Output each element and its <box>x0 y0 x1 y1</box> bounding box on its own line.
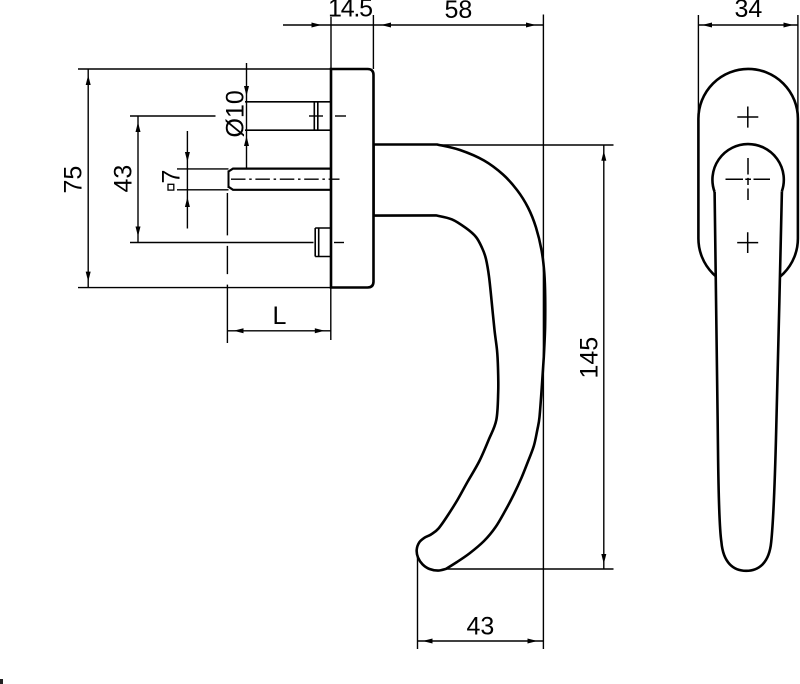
svg-text:7: 7 <box>158 170 186 184</box>
svg-text:43: 43 <box>110 165 138 193</box>
label square symbol <box>168 184 174 190</box>
extension line L right (plate face x=330.8 below plate) <box>330 288 332 340</box>
arrow L left <box>234 328 244 333</box>
rosette front view <box>698 69 798 288</box>
extension line square-7 top (spindle top y=168.9) <box>177 168 229 170</box>
corner artifact mark <box>0 679 3 684</box>
centre cross dash-dot horizontal <box>726 178 771 180</box>
arrow L right <box>315 328 325 333</box>
extension line square-7 bottom (spindle bottom y=189.8) <box>177 189 229 191</box>
spindle end face <box>228 171 230 189</box>
arrow dia10 upper (points down to screw top) <box>244 86 249 96</box>
svg-text:145: 145 <box>576 337 604 379</box>
dimension line 7 <box>186 131 188 229</box>
arrow 43b left <box>423 639 433 644</box>
arrow 75 bottom <box>86 272 91 282</box>
svg-text:75: 75 <box>60 166 88 194</box>
screw 1 shaft top edge <box>245 101 331 103</box>
extension line x=331 above plate <box>330 17 332 69</box>
neck circle front view (visible arc) <box>712 144 783 192</box>
svg-text:43: 43 <box>467 613 495 641</box>
extension line 43 top (screw1 centre y=116) <box>130 115 216 117</box>
screw 2 centreline dash <box>334 242 344 244</box>
centre cross dash-dot vertical <box>747 158 749 200</box>
arrow 58 left / 14.5 right (points left) <box>381 23 391 28</box>
arrow 34 left <box>702 23 712 28</box>
arrow 7 upper (points down to spindle top) <box>185 152 190 162</box>
screw 1 shaft bottom edge <box>245 129 331 131</box>
dashed projection line of spindle end (x=227.4) <box>226 193 228 343</box>
arrow 75 top <box>86 75 91 85</box>
arrow 58 right (points right) <box>526 23 536 28</box>
extension line 145 top (y=145) <box>430 144 614 146</box>
spindle centreline dash-dot <box>231 178 340 180</box>
dimension line 58 <box>373 24 543 26</box>
arrow 14.5 left (points right) <box>312 23 322 28</box>
long shared extension line 58/43 (x=543.4) <box>542 15 544 650</box>
top dimension row: left tail of 14.5 <box>283 24 331 26</box>
grip front view (fill covers rosette bottom apex) <box>715 191 782 571</box>
extension line 34 right <box>797 15 799 119</box>
arrow 43b right <box>528 639 538 644</box>
extension line 145 bottom (y=569) <box>430 568 614 570</box>
grip front view outline <box>715 191 782 571</box>
arrow 145 bottom (points down) <box>601 554 606 564</box>
extension line plate bottom (75 dim, y=287.5) <box>78 287 331 289</box>
dimension line 14.5 <box>331 24 373 26</box>
arrow dia10 lower (points up to screw bottom) <box>244 136 249 146</box>
extension line x=373.4 above plate <box>372 15 374 69</box>
screw 1 head face lines <box>313 102 315 130</box>
dimension line 75 <box>87 69 89 288</box>
dimension line 145 <box>603 145 605 569</box>
extension line 43-bottom left (x=417.5) <box>417 557 419 649</box>
dimension line 43 <box>137 116 139 243</box>
handle side view outline <box>374 145 546 571</box>
dimension line diameter 10 (x=246.5) <box>246 63 248 169</box>
arrow 34 right <box>784 23 794 28</box>
svg-text:58: 58 <box>445 0 473 24</box>
spindle (square 7) outline <box>229 169 331 190</box>
dimension line L <box>227 330 330 332</box>
screw hole cross bottom <box>737 232 758 253</box>
plate (rosette side view) <box>331 69 374 288</box>
arrow 145 top (points up) <box>601 151 606 161</box>
extension line plate top (75 dim, y=69) <box>78 68 331 70</box>
screw 1 centreline dashes <box>309 115 323 117</box>
arrow 7 lower (points up to spindle bottom) <box>185 197 190 207</box>
svg-text:14.5: 14.5 <box>328 0 372 23</box>
extension line 34 left <box>697 15 699 119</box>
screw hole cross top <box>737 107 758 128</box>
extension line 43 bottom (screw2 centre y=242.5) <box>130 242 314 244</box>
svg-text:L: L <box>273 302 287 330</box>
svg-text:34: 34 <box>735 0 763 23</box>
arrow 43 top <box>136 122 141 132</box>
screw 2 head outline <box>315 228 330 257</box>
arrow 43 bottom <box>136 227 141 237</box>
dimension line 43 bottom <box>418 640 544 642</box>
dimension line 34 <box>698 24 798 26</box>
